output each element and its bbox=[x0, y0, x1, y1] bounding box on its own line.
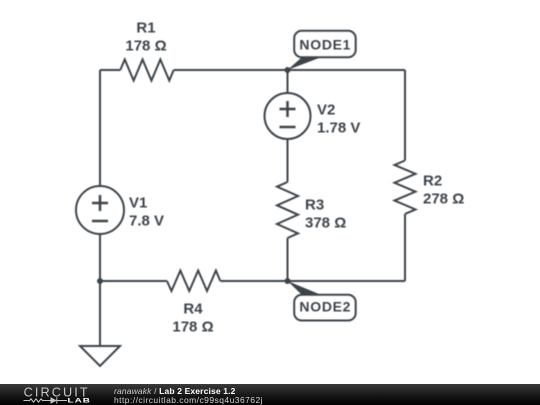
svg-text:R3: R3 bbox=[305, 197, 324, 214]
svg-text:V2: V2 bbox=[317, 102, 335, 119]
svg-text:378 Ω: 378 Ω bbox=[305, 215, 346, 232]
svg-text:178 Ω: 178 Ω bbox=[172, 319, 213, 336]
svg-text:7.8 V: 7.8 V bbox=[129, 213, 164, 230]
svg-text:R2: R2 bbox=[423, 173, 442, 190]
svg-text:R1: R1 bbox=[136, 20, 155, 37]
svg-text:LAB: LAB bbox=[68, 396, 91, 404]
svg-text:278 Ω: 278 Ω bbox=[423, 191, 464, 208]
svg-text:NODE1: NODE1 bbox=[299, 37, 351, 53]
svg-text:R4: R4 bbox=[183, 301, 203, 318]
svg-text:1.78 V: 1.78 V bbox=[317, 120, 360, 137]
svg-text:V1: V1 bbox=[129, 195, 147, 212]
svg-text:178 Ω: 178 Ω bbox=[125, 38, 166, 55]
svg-text:NODE2: NODE2 bbox=[299, 299, 351, 315]
